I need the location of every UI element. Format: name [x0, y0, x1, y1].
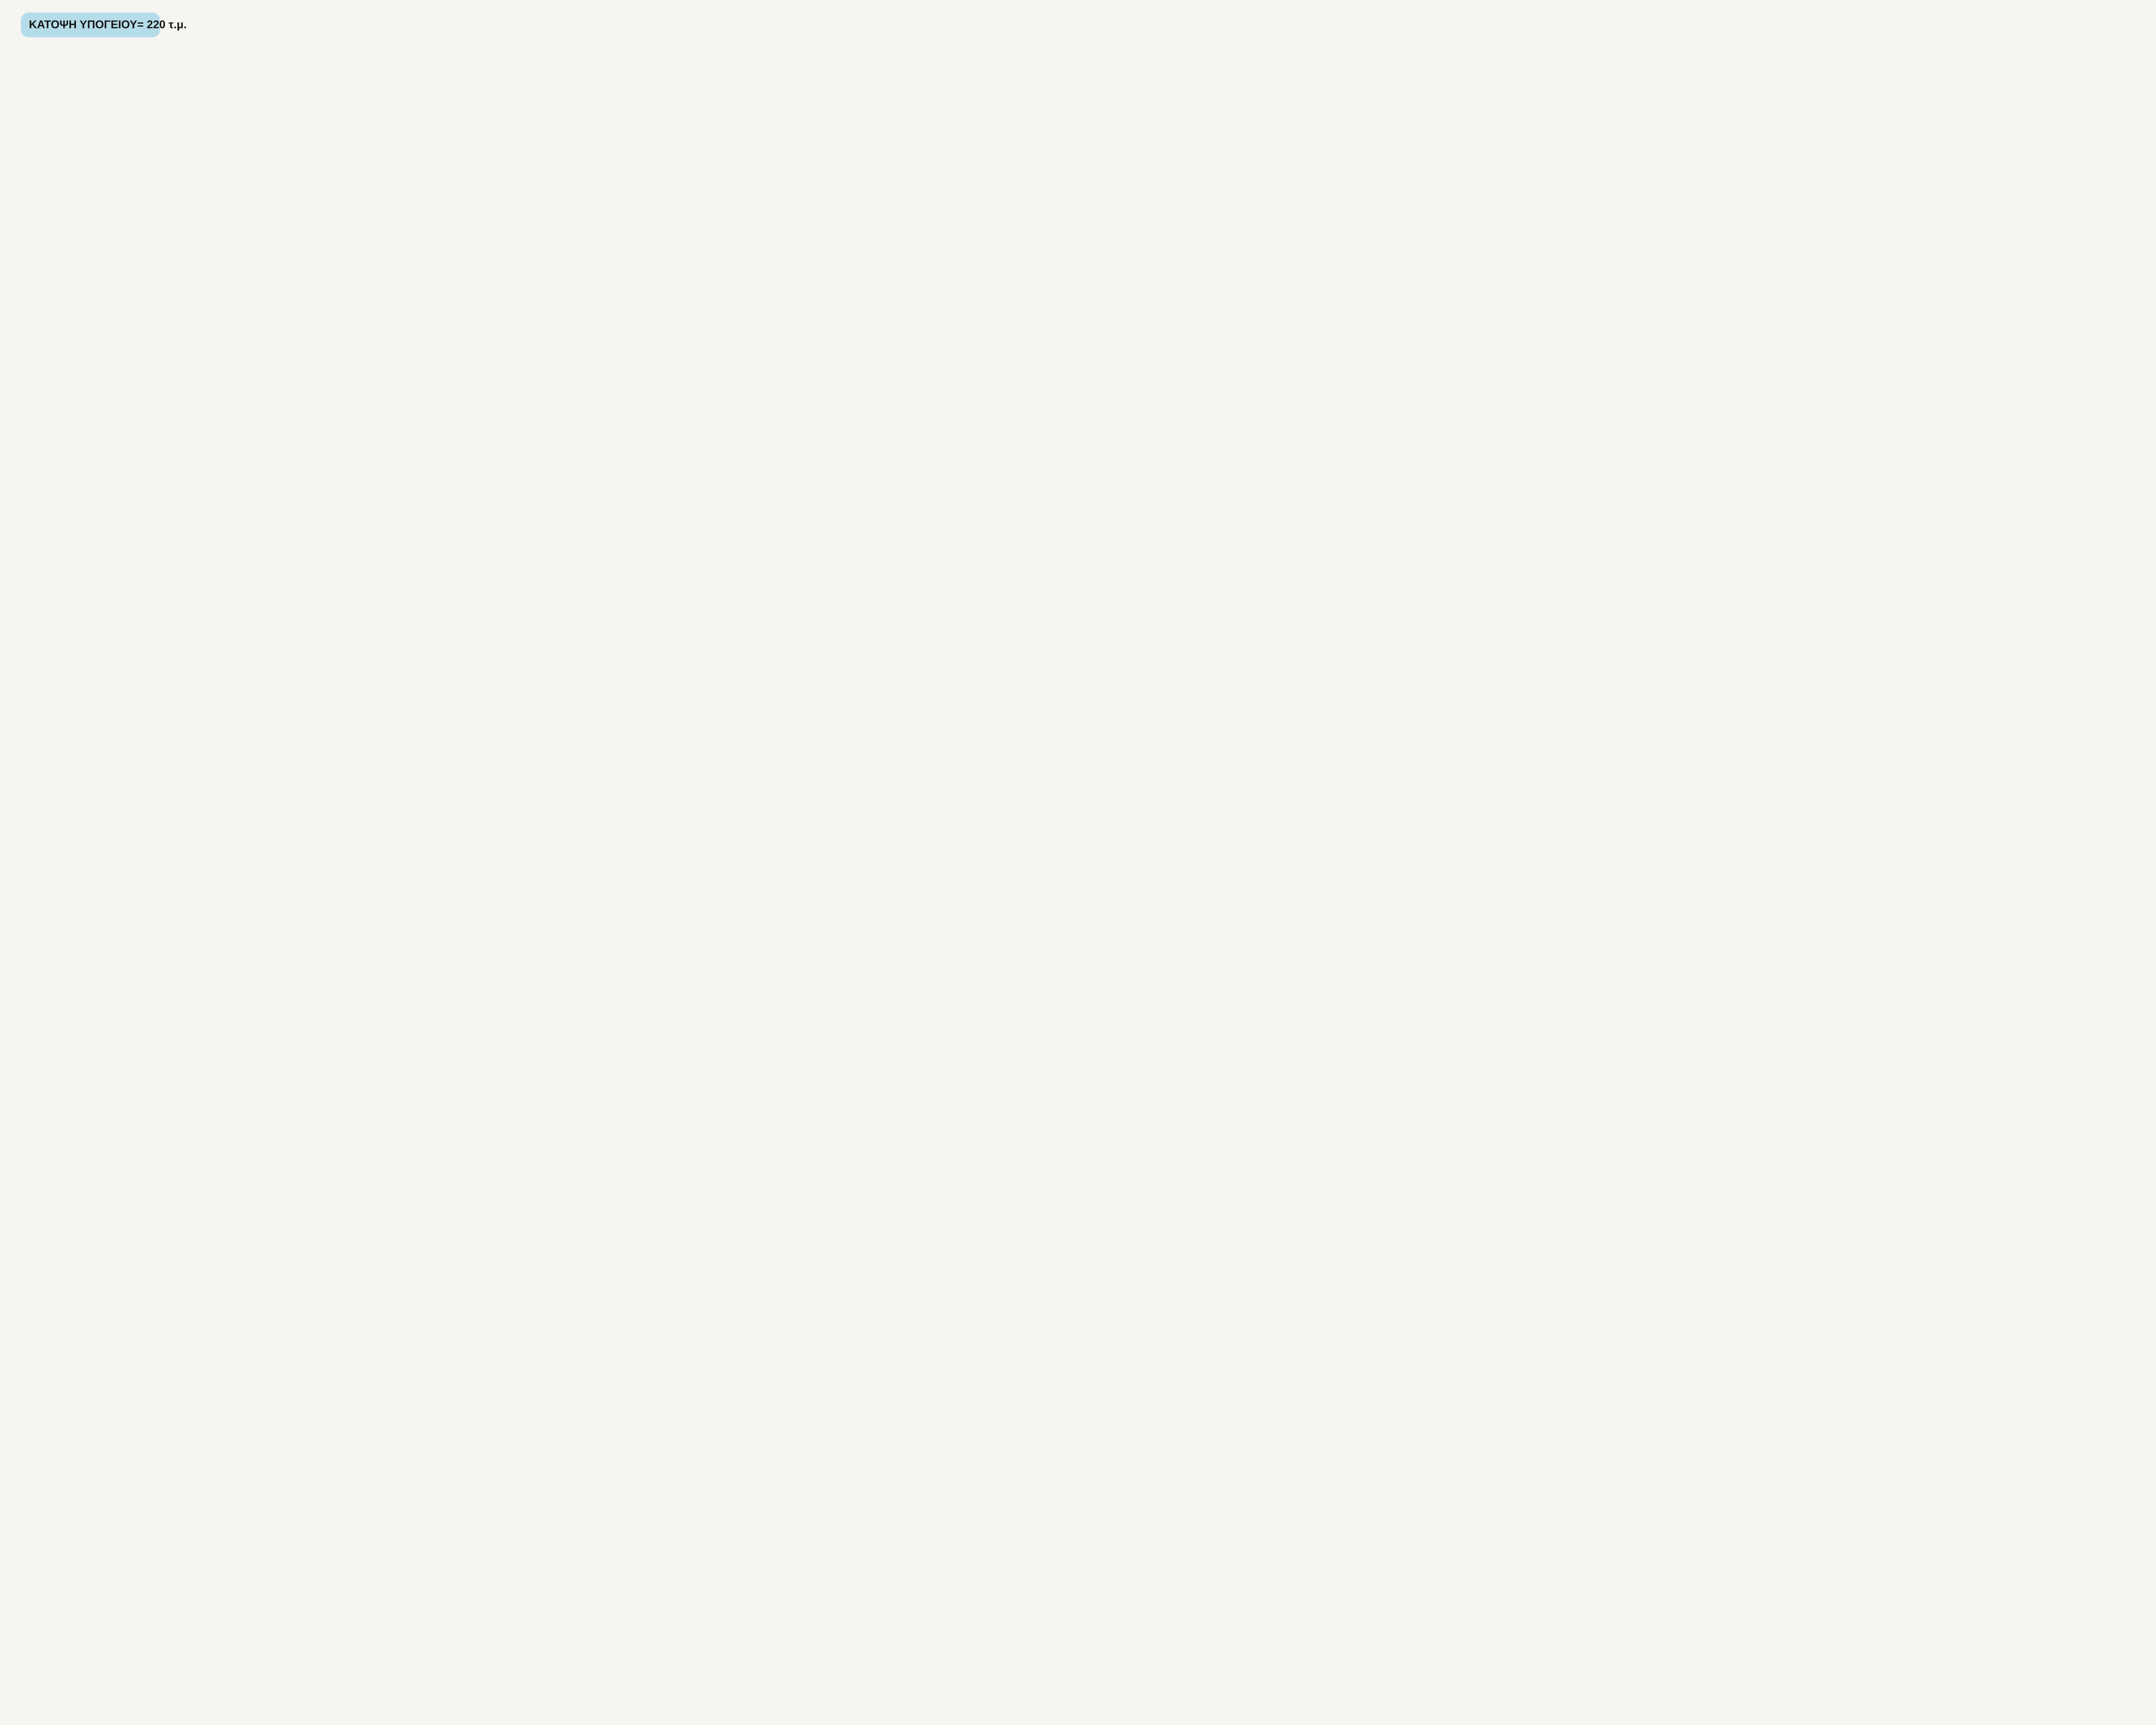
paper background — [0, 0, 647, 431]
title block — [21, 13, 187, 38]
svg-text:ΚΑΤΟΨΗ ΥΠΟΓΕΙΟΥ= 220 τ.μ.: ΚΑΤΟΨΗ ΥΠΟΓΕΙΟΥ= 220 τ.μ. — [29, 18, 187, 31]
